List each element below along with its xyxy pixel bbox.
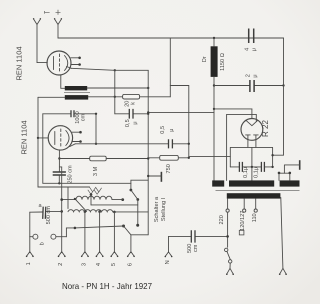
primary tap 110 stub and circle [254,199,257,213]
capacitor C10 0,1u right leads [252,166,273,168]
svg-text:μ: μ [251,48,257,51]
wire: primary right end down [281,198,283,269]
wire: antenna down to V1 grid [37,25,47,63]
svg-text:cm: cm [81,113,87,121]
svg-text:b: b [40,242,46,245]
svg-text:4: 4 [96,263,102,266]
tube V1 anode lead exiting right [67,67,72,69]
node: grid return / 250cm [58,182,60,184]
tube V1 anode arc [65,56,68,71]
svg-text:2: 2 [58,263,64,266]
switch arm C [124,226,131,235]
svg-text:500: 500 [187,244,193,253]
wire: left rail down [37,97,39,187]
wire: terminal 1 stem [29,237,31,252]
wire: filament bus box [230,147,272,167]
heater tap stubs with dots (4V winding) [278,172,291,181]
node: crossing link top [74,198,76,200]
svg-text:3 M: 3 M [93,166,99,176]
wire: choke bottom line down to transformer [213,77,215,180]
primary tap 220 stub and circle [226,199,229,213]
switch arm A (Schalter a) [131,190,138,200]
wire: main rail vertical [147,70,149,235]
wire: detector plate line to rail [75,143,148,145]
transformer T2 heater winding bar right [280,180,300,186]
node: choke / 2u line [213,84,215,86]
ground tap bar near rail [147,172,161,182]
node: 750 right / detector column [188,157,190,159]
mains switch contact bottom [229,260,232,263]
AF T1 primary winding (humps row 2) [68,187,113,212]
ground tap bar right [284,160,299,173]
wire: terminal 4 stem [99,212,101,252]
wire: rail branch to switch feed [131,180,148,190]
wire: anode supply to rectifier [214,108,252,110]
inductor L1 top winding (black bar) [65,86,87,90]
capacitor C8 plates [191,230,195,242]
node: center tap / cap line [251,166,253,168]
fuse box small [239,230,244,235]
wire: secondary to open contact [112,199,123,201]
node: 220 / 500cm line [226,235,229,238]
node: row1 at terminal2 stem [60,198,63,201]
wire: C4 left lead down to jack b [29,212,31,237]
wire: cross line to rail [138,211,148,213]
capacitor C3 plates [53,172,66,175]
wire: bleeder vertical from top line [169,38,171,97]
wire: C1 left lead down to grid return line [43,114,131,184]
capacitor C3 bottom lead [58,176,60,184]
svg-text:1: 1 [26,262,32,265]
wire: V1 anode line [71,68,115,70]
node: B+ takeoff [271,154,273,156]
tube U1 grid lead wire [227,114,257,180]
tube U1 filament leads down [248,135,256,148]
wire: 3M left lead [59,158,89,160]
label minus [44,11,49,14]
node: L1 wire / rail [147,87,149,89]
terminal: antenna fork A1 [33,18,41,24]
tube U1 filament bars [246,134,259,136]
primary tap 120/127 stub and circle [243,199,246,213]
wire: N stem [168,236,170,252]
terminal N fork [165,252,173,257]
svg-text:0,1μ: 0,1μ [243,167,249,178]
transformer T2 core line [216,189,300,191]
capacitor C8 500cm mains leads [169,235,228,237]
node: top line / choke top [213,37,215,39]
wire: top B+ horizontal line [58,37,284,39]
svg-text:Stellung I: Stellung I [161,197,167,221]
capacitor C9 plates [239,162,242,172]
wire: 220 tap down to mains [227,212,229,247]
svg-text:REN 1104: REN 1104 [15,46,24,80]
node: row2 terminal taps [84,210,87,213]
node: 2u / right rail [282,84,284,86]
svg-text:110: 110 [252,213,258,222]
svg-text:500 cm: 500 cm [46,206,52,225]
wire: filament center tap down [251,147,253,180]
wire: 2u line [214,85,284,87]
tube V2 REN1104 envelope [48,126,72,150]
wire: L2 left lead to left rail [38,96,65,98]
wire: switch column down [137,200,139,226]
svg-text:3: 3 [81,263,87,266]
svg-text:k: k [131,102,137,105]
wire: anode line to top of main rail [115,69,148,71]
node: 500cm at terminal2 stem [60,210,63,213]
svg-text:μ: μ [169,129,175,132]
tube V1 REN1104 envelope [47,51,71,75]
capacitor C3 250cm: top lead [58,170,60,173]
transformer T2 heater winding bar middle [229,180,274,186]
node: rail/C2 [147,113,149,115]
tube V1 filament stub pins with dots [71,57,81,66]
svg-text:Schalter a: Schalter a [154,196,160,222]
svg-text:μ: μ [133,121,139,124]
terminal 4 fork [96,252,104,257]
node: jack line dot [74,227,77,230]
wire: C1 right lead down to detector line [95,114,97,144]
node: left rail / V2 grid [37,137,39,139]
svg-text:2: 2 [245,74,251,77]
mains switch arm [227,252,230,260]
tube V2 cathode [54,132,56,145]
svg-text:750: 750 [166,164,172,173]
tube U1 R22 envelope [241,118,263,140]
capacitor C7 2u plates [250,80,254,92]
wire: tap line to switch column [91,204,138,206]
capacitor C2 plates [129,109,133,119]
svg-text:0,1μ: 0,1μ [253,167,259,178]
wire: choke top lead [213,38,215,46]
node: arm C open contact dot [136,224,139,227]
AF T1 secondary winding (humps) [62,196,112,199]
resistor R3 750 body [160,155,179,160]
capacitor C5 plates [169,139,173,148]
terminal 6 fork [127,252,135,257]
tube U1 anode chevron [246,121,257,126]
resistor R3 750 leads [148,157,189,159]
capacitor C5 0,5u leads (right of rail) [148,143,189,145]
node: cathode / 3M line [58,157,60,159]
node: arm A lower dot [136,198,139,201]
jack b right contact [51,234,67,239]
AF T1 tap stub with dot [90,193,93,205]
wire: 3M right lead to rail [106,158,148,160]
tube V2 filament stub pins with dots [72,131,82,143]
tube V1 cathode [53,57,55,70]
mains plug fork right [279,268,287,275]
capacitor C10 plates [261,162,264,172]
resistor R2 3M body [90,156,107,161]
node: switch feed dot [130,189,133,192]
svg-text:250 cm: 250 cm [67,165,73,184]
node: anode line / 20k branch [114,69,116,71]
wire: jog to terminal2 stem [59,166,61,168]
capacitor C9 0,1u left leads [230,166,252,168]
node: 20k left node [114,96,116,98]
svg-text:Dr: Dr [202,56,208,62]
choke Dr body (black bar) [211,46,218,77]
capacitor C6 4u leads on top line [244,37,258,39]
crossing link wire [75,199,87,212]
wire: rail to rectifier heater line [148,111,214,113]
node: jack line contact dot [122,225,125,228]
terminal 1 fork [26,252,34,257]
capacitor C1 1000cm grid cap leads [43,113,96,115]
wire: terminal 5 stem [113,212,115,252]
resistor R1 20k body [123,94,140,99]
tube V2 grid (dashed) [60,129,62,147]
wire: 20k right lead across rail to bleeder vertical [140,96,171,98]
svg-text:R 22: R 22 [261,120,270,137]
capacitor C1 plates [71,110,74,117]
svg-text:4: 4 [244,48,250,51]
wire: left rail corner to AF transformer [38,186,90,188]
jack b left contact [30,234,38,239]
wire: terminal 2 stem [61,167,63,252]
svg-text:0,5: 0,5 [125,119,131,127]
mains plug fork left [226,268,234,275]
terminal: battery fork A2 [54,18,62,24]
wire: L2 right lead to 20k node [88,96,122,98]
svg-text:120/127: 120/127 [240,211,246,231]
wire: V2 anode lead [70,144,76,147]
wire: row2 end to switch column [113,211,138,213]
svg-text:REN 1104: REN 1104 [20,120,29,154]
wire: right B+ rail down [273,38,284,155]
wire: switch to plug fork [229,263,231,268]
capacitor C2 0,5u (parallel with 20k) leads [115,113,148,115]
label plus [56,10,61,15]
svg-text:Nora - PN 1H - Jahr 1927: Nora - PN 1H - Jahr 1927 [62,282,153,291]
svg-text:220: 220 [219,215,225,224]
wire: rail bottom corner to terminal 6 [131,235,148,252]
wire: branch down from anode line to 20k node [114,70,116,114]
node: choke / anode line [213,108,215,110]
wire: terminal 3 stem [84,212,86,252]
wire: node to rectifier filament box [189,156,231,158]
terminal 3 fork [81,252,89,257]
inductor L2 bottom winding (black bar) [65,95,88,100]
transformer T2 heater winding bar left [212,180,224,186]
transformer T2 primary winding bar [227,193,281,198]
core line between windings [64,92,90,94]
node: right cap end [271,166,273,168]
tube U1 anode lead [251,109,253,119]
wire: V2 grid lead [38,137,48,139]
wire: V1 bottom lead to RF coil L1 [61,75,65,88]
wire: battery + down to top B+ line [57,25,59,39]
wire: V2 cathode down [58,150,60,171]
svg-text:μ: μ [252,74,258,77]
svg-text:N: N [165,260,171,264]
tube V1 grid (dashed) [59,54,61,72]
wire: branch right to detector cap column [170,86,189,157]
svg-text:6: 6 [127,263,133,266]
mains switch contact top [225,248,228,251]
capacitor C6 plates [249,29,254,44]
svg-text:5: 5 [111,263,117,266]
terminal 2 fork [58,252,66,257]
capacitor C4 500cm leads [30,210,62,213]
terminal 5 fork [110,252,118,257]
svg-text:1150 Ω: 1150 Ω [220,53,226,71]
node: AF secondary open contact [121,198,124,201]
svg-text:20: 20 [124,101,130,107]
tube V2 anode arc [66,131,69,146]
svg-text:0,5: 0,5 [160,126,166,134]
svg-text:cm: cm [193,244,199,252]
wire: jack b to switch contact [66,226,123,237]
wire: L1 right to main rail [87,87,148,89]
capacitor C4 plates [43,207,46,219]
AF transformer T1 core zigzag [88,187,102,194]
